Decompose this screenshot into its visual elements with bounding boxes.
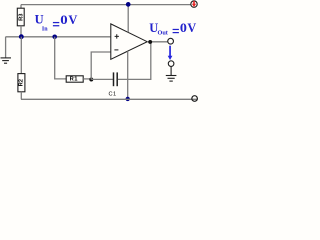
wire R3 top lead (20, 5, 22, 9)
svg-text:0: 0 (180, 21, 187, 35)
wire mid input rail (6, 36, 111, 38)
resistor R1 (66, 76, 83, 83)
node top power (126, 2, 131, 7)
op-amp U1 (111, 24, 147, 59)
svg-text:U: U (35, 13, 44, 27)
wire C1 to feedback corner (118, 42, 151, 80)
capacitor C1 (109, 72, 118, 97)
wire probe to ground (170, 66, 172, 75)
wire op-amp bottom power pin (127, 51, 129, 99)
svg-text:In: In (42, 27, 48, 33)
svg-text:V: V (68, 13, 77, 27)
wire left ground branch (5, 37, 7, 58)
node A (19, 34, 24, 39)
svg-text:0: 0 (60, 13, 67, 27)
ground left (1, 58, 12, 63)
wire bottom rail (21, 98, 197, 100)
node B1 (52, 35, 57, 40)
node bottom power (126, 97, 130, 101)
ground right (166, 76, 177, 82)
wire R1 right lead (83, 78, 91, 80)
svg-text:R3: R3 (19, 13, 25, 21)
node B (89, 78, 93, 82)
svg-text:Out: Out (158, 30, 169, 37)
node output (148, 40, 152, 44)
wire node B to C1 (91, 78, 113, 80)
svg-text:R1: R1 (70, 76, 79, 82)
resistor R3 (17, 8, 24, 26)
terminal lower probe (168, 61, 174, 67)
svg-text:R2: R2 (19, 79, 25, 86)
terminal bottom right (192, 96, 198, 102)
terminal output probe (168, 38, 174, 44)
voltage arrow U_Out (168, 46, 173, 60)
resistor R2 (18, 74, 25, 92)
wire op-amp top power pin (127, 5, 129, 33)
wire R2 top lead (20, 37, 22, 74)
source terminal with red arrow (191, 1, 197, 7)
wire riser to R1 (55, 37, 66, 79)
label U_Out = 0V (149, 21, 196, 37)
wire R3 bottom lead (20, 26, 22, 35)
wire top rail (21, 4, 191, 6)
label U_In = 0V (35, 13, 78, 33)
wire R2 bottom lead (20, 92, 22, 100)
svg-text:V: V (187, 21, 196, 35)
wire output (147, 41, 168, 43)
svg-text:C1: C1 (109, 91, 117, 97)
wire inverting input branch (91, 52, 111, 80)
